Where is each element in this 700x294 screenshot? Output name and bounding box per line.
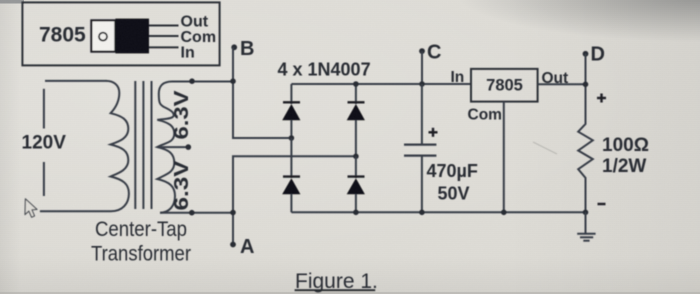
- mouse cursor: [25, 199, 37, 217]
- resistor R1 zigzag: [578, 122, 593, 213]
- junction dot A and secondary bottom: [230, 210, 236, 216]
- junction dot D on out wire: [583, 82, 589, 88]
- lead Com: [149, 35, 179, 37]
- junction dot bridge right mid: [353, 154, 359, 160]
- wire Com: [503, 102, 505, 213]
- node A label: [240, 236, 254, 258]
- 120V source top lead: [45, 80, 107, 82]
- bridge top rail / In wire: [291, 83, 471, 85]
- value label 50V: [438, 184, 470, 204]
- center tap lead: [157, 146, 186, 148]
- capacitor C1 top wire: [421, 84, 423, 145]
- diode D1 (top left): [282, 84, 300, 138]
- junction dot resistor on bottom rail: [583, 210, 589, 216]
- node A dot: [230, 242, 236, 248]
- secondary top terminal dot: [189, 78, 195, 84]
- photo bottom edge band: [0, 292, 700, 294]
- U1 package body (black): [115, 19, 149, 54]
- 120V source bottom lead: [40, 210, 111, 212]
- transformer core line 2: [142, 81, 144, 209]
- capacitor C1 plates: [404, 145, 436, 156]
- value label 100 ohm: [602, 135, 649, 156]
- bridge bottom rail: [291, 211, 585, 213]
- label 120V: [22, 133, 67, 154]
- secondary top lead: [172, 81, 233, 83]
- transformer core line 3: [151, 81, 153, 209]
- node D dot: [583, 51, 589, 57]
- diode D3 (bottom left): [282, 138, 300, 212]
- caption Center-Tap: [95, 218, 187, 241]
- photo top edge mark left: [0, 0, 24, 4]
- node C label: [427, 42, 441, 64]
- junction dot bottom rail at right diode: [353, 210, 359, 216]
- junction dot C on top rail: [419, 81, 425, 87]
- secondary bottom terminal dot: [189, 210, 195, 216]
- pin label Com: [181, 29, 217, 46]
- U1 package tab (TO-220 front): [91, 20, 115, 51]
- 7805 legend box: [22, 2, 219, 65]
- winding label 6.3V upper: [170, 90, 193, 139]
- lead Out: [149, 25, 179, 27]
- node C dot: [419, 48, 425, 54]
- pin label Out: [181, 14, 209, 31]
- regulator label 7805: [486, 77, 523, 95]
- pin label In: [181, 45, 195, 62]
- node B dot: [231, 44, 237, 50]
- junction dot cap on bottom rail: [419, 210, 425, 216]
- regulator pin label Com: [468, 107, 502, 124]
- caption Figure 1.: [295, 270, 378, 293]
- ground symbol: [577, 212, 595, 240]
- regulator pin label In: [451, 69, 465, 86]
- 120V source left lead upper segment: [43, 89, 45, 129]
- diode D2 (top right): [347, 84, 365, 156]
- regulator pin label Out: [542, 70, 569, 87]
- value label 470uF: [427, 161, 478, 181]
- diode D4 (bottom right): [347, 156, 365, 212]
- caption Transformer: [91, 242, 191, 265]
- transformer core line 1: [134, 81, 136, 209]
- junction dot bridge top rail right: [353, 81, 359, 87]
- node B label: [240, 38, 254, 60]
- load minus sign: [598, 203, 606, 205]
- wire D vertical: [585, 54, 587, 123]
- value label 1/2W: [602, 156, 646, 177]
- wire Out: [538, 83, 586, 85]
- capacitor C1 bottom wire: [421, 156, 423, 213]
- transformer T1 primary winding: [106, 81, 129, 211]
- junction dot bridge left mid: [289, 135, 295, 141]
- lead In: [149, 46, 179, 48]
- photo reflection streak: [533, 142, 557, 154]
- center tap terminal dot: [186, 144, 192, 150]
- node D label: [591, 44, 605, 66]
- wire A horizontal: [233, 156, 356, 244]
- junction dot Com on bottom rail: [501, 210, 507, 216]
- secondary bottom lead: [160, 212, 233, 214]
- wire B vertical: [233, 47, 291, 138]
- regulator U1 7805 box: [471, 69, 538, 102]
- junction dot B and secondary top: [230, 78, 236, 84]
- legend label 7805: [39, 24, 86, 47]
- transformer T1 secondary winding: [157, 82, 175, 213]
- load plus sign: [597, 94, 606, 103]
- bridge label 4 x 1N4007: [278, 60, 371, 80]
- winding label 6.3V lower: [170, 160, 193, 210]
- wire C to top rail: [421, 51, 423, 84]
- 120V source left lead lower segment: [43, 162, 45, 196]
- capacitor plus sign: [429, 128, 438, 137]
